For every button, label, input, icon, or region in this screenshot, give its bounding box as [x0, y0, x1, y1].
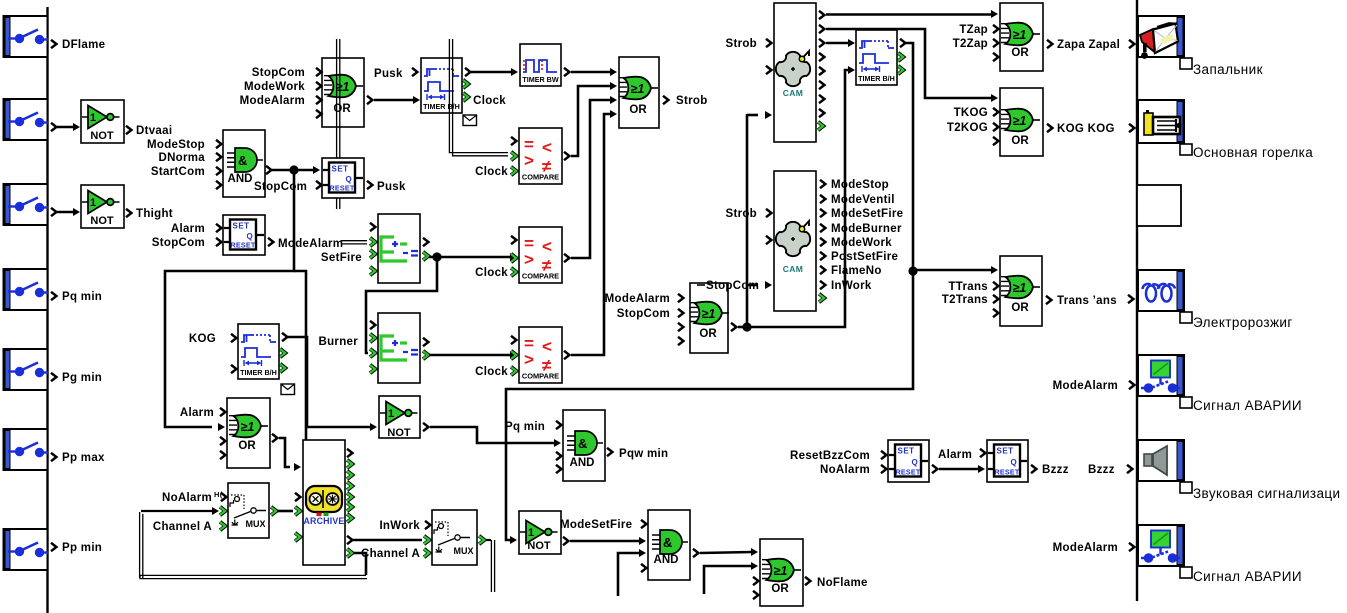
svg-text:ModeSetFire: ModeSetFire [831, 208, 903, 220]
svg-text:1: 1 [388, 408, 394, 420]
wire CNT1 loop to CNT2 [366, 261, 437, 353]
svg-text:TIMER BW: TIMER BW [522, 75, 559, 84]
svg-text:NOT: NOT [527, 540, 551, 552]
wire ARCHIVE to MUX2 [353, 539, 422, 542]
svg-text:1: 1 [528, 527, 534, 539]
input contact to NOT U2 [4, 184, 48, 225]
output device alarm signal 2 [1138, 525, 1184, 566]
inverter NOT3 [379, 396, 420, 438]
svg-text:Q: Q [1010, 458, 1017, 467]
node KOG KOG output [1047, 124, 1052, 132]
svg-text:OR: OR [629, 104, 647, 116]
svg-text:Сигнал АВАРИИ: Сигнал АВАРИИ [1193, 398, 1302, 413]
multiplexer MUX2 [432, 510, 477, 565]
wire Channel A loop to MUX1 [353, 553, 366, 575]
svg-text:ModeSetFire: ModeSetFire [560, 519, 632, 531]
wire T3 to NOT3 [288, 337, 370, 427]
inverter NOT U1 [81, 100, 124, 143]
spare empty box [1137, 185, 1181, 226]
wire CAM1 out1 to OR6 [826, 13, 992, 16]
or-gate OR5 [690, 283, 728, 353]
svg-text:AND: AND [654, 554, 679, 566]
svg-text:≥1: ≥1 [241, 420, 255, 434]
svg-text:Pqw min: Pqw min [619, 448, 668, 460]
wire [57, 126, 74, 129]
svg-text:T2KOG: T2KOG [947, 122, 988, 134]
svg-text:NoAlarm: NoAlarm [820, 464, 870, 476]
svg-text:OR: OR [771, 583, 789, 595]
left input rail [46, 7, 48, 613]
wire StopCom to CAM2 [747, 284, 758, 287]
node Strob output [663, 96, 668, 104]
svg-text:ModeWork: ModeWork [244, 81, 305, 93]
pins CNT2 right [423, 338, 428, 346]
wire COMPARE2 to OR2 [564, 254, 569, 262]
or-gate OR6 Zap [1000, 3, 1043, 71]
svg-text:SET: SET [233, 222, 250, 231]
svg-text:ModeAlarm: ModeAlarm [1053, 380, 1118, 392]
timer TIMER B/H T3 KOG [238, 324, 279, 379]
archive block ARCHIVE [303, 440, 345, 565]
inverter NOT U2 [81, 185, 124, 228]
svg-text:Clock: Clock [475, 166, 508, 178]
svg-text:≥1: ≥1 [336, 80, 350, 94]
svg-text:ModeVentil: ModeVentil [831, 194, 895, 206]
node Thight [126, 209, 131, 217]
counter CNT2 [378, 313, 420, 383]
or-gate OR3 [227, 398, 270, 468]
wire TBW to OR2 [571, 71, 611, 74]
pins CAM1 outputs [819, 11, 824, 19]
wire SR3 to SR4 [932, 465, 937, 473]
pins OR3 [220, 437, 225, 445]
pins AND3 [556, 421, 561, 429]
svg-text:COMPARE: COMPARE [522, 372, 559, 381]
junction StopCom net [742, 322, 751, 331]
svg-text:Channel A: Channel A [361, 548, 420, 560]
wire StopCom to TIMER4 [747, 70, 849, 327]
envelope T3 [281, 384, 295, 395]
node ModeAlarm output [268, 238, 273, 246]
svg-text:OR: OR [238, 440, 256, 452]
wire MUX2 out down [479, 536, 484, 544]
wire OR5 out to junction [731, 323, 736, 331]
svg-text:KOG: KOG [189, 333, 216, 345]
pins SR4 [980, 449, 985, 457]
pin CAM1 input2 [766, 66, 771, 74]
output device electro ignition [1138, 270, 1184, 311]
svg-text:COMPARE: COMPARE [522, 272, 559, 281]
sr-latch SR1 [322, 158, 364, 198]
svg-text:ModeAlarm: ModeAlarm [240, 95, 305, 107]
svg-text:Clock: Clock [475, 366, 508, 378]
or-gate OR4 [760, 539, 803, 606]
svg-text:NoFlame: NoFlame [817, 577, 868, 589]
svg-text:FlameNo: FlameNo [831, 265, 882, 277]
svg-text:Сигнал АВАРИИ: Сигнал АВАРИИ [1193, 569, 1302, 584]
wire [57, 211, 74, 214]
timer TIMER BW T2 [520, 44, 561, 86]
pin CAM2 input2 [766, 236, 771, 244]
svg-text:ModeStop: ModeStop [147, 139, 205, 151]
svg-text:TIMER B/H: TIMER B/H [423, 102, 460, 111]
output device alarm signal 1 [1138, 355, 1184, 396]
input contact Pq min [4, 269, 48, 310]
svg-text:Bzzz: Bzzz [1042, 464, 1069, 476]
svg-text:PostSetFire: PostSetFire [831, 251, 898, 263]
input contact Pg min [4, 349, 48, 390]
svg-text:Strob: Strob [725, 208, 757, 220]
or-gate OR2 Strob [619, 57, 659, 128]
node StopCom label top [697, 284, 705, 286]
svg-text:RESET: RESET [330, 184, 355, 193]
svg-text:ModeAlarm: ModeAlarm [278, 238, 343, 250]
svg-text:≥1: ≥1 [1013, 281, 1027, 295]
svg-text:NoAlarm: NoAlarm [162, 492, 212, 504]
pins SR1 [316, 181, 321, 189]
cam block CAM1 [774, 3, 816, 142]
svg-text:StopCom: StopCom [152, 237, 205, 249]
output device sound alarm [1138, 440, 1184, 481]
svg-text:MUX: MUX [246, 519, 266, 529]
junction StopCom [289, 165, 298, 174]
svg-text:KOG KOG: KOG KOG [1057, 123, 1115, 135]
svg-text:<: < [542, 237, 552, 256]
svg-text:<: < [542, 337, 552, 356]
pins CNT2 left [370, 321, 375, 329]
svg-text:StopCom: StopCom [617, 308, 670, 320]
svg-text:ModeWork: ModeWork [831, 237, 892, 249]
svg-text:ModeStop: ModeStop [831, 179, 889, 191]
wire AND1 to SR1 with StopCom node [266, 166, 271, 174]
cam block CAM2 [774, 171, 816, 311]
wire CNT2 to COMPARE3 [429, 354, 511, 357]
svg-text:MUX: MUX [454, 546, 474, 556]
wire NOT4 to AND2 [570, 540, 640, 543]
svg-text:NOT: NOT [90, 215, 114, 227]
pins COMPARE3 [511, 336, 516, 344]
wire StopCom net vertical [746, 114, 749, 327]
svg-text:StopCom: StopCom [252, 67, 305, 79]
svg-text:≥1: ≥1 [1013, 28, 1027, 42]
node Pqw min output [607, 448, 612, 456]
svg-text:OR: OR [1011, 302, 1029, 314]
svg-text:RESET: RESET [231, 241, 256, 250]
svg-text:Электророзжиг: Электророзжиг [1193, 315, 1293, 330]
comparator COMPARE3 [519, 327, 562, 383]
wire MUX1 to ARCHIVE [271, 507, 276, 515]
wire to OR8 [913, 269, 992, 272]
svg-text:&: & [578, 436, 587, 451]
pins MUX2 [424, 536, 429, 544]
pin OR1 input 4 [316, 110, 321, 118]
svg-text:TZap: TZap [959, 24, 988, 36]
pins CAM2 outputs [820, 180, 825, 188]
pin ARCHIVE out Channel A [347, 549, 352, 557]
multiplexer MUX1 [228, 483, 269, 538]
wire StopCom to CAM1 [747, 114, 758, 117]
svg-text:Channel A: Channel A [153, 521, 212, 533]
svg-text:SET: SET [332, 165, 349, 174]
svg-text:Pp max: Pp max [62, 452, 105, 464]
wire OR1 to TIMER1 [367, 96, 372, 104]
svg-text:≥1: ≥1 [702, 307, 716, 321]
svg-text:OR: OR [699, 328, 717, 340]
svg-text:Bzzz: Bzzz [1088, 464, 1115, 476]
svg-text:Zapa Zapal: Zapa Zapal [1057, 39, 1120, 51]
wire COMPARE1 to OR2 [564, 152, 569, 160]
output device main burner [1138, 100, 1184, 143]
wire NOT3 to AND3 [423, 423, 428, 431]
svg-text:Trans ʼans: Trans ʼans [1057, 295, 1117, 307]
svg-text:COMPARE: COMPARE [522, 173, 559, 182]
svg-text:StopCom: StopCom [254, 181, 307, 193]
svg-text:Pq min: Pq min [505, 421, 545, 433]
svg-text:>: > [524, 350, 534, 369]
pins OR5 [678, 323, 683, 331]
svg-text:ResetBzzCom: ResetBzzCom [790, 450, 870, 462]
pin AND1 input4 [216, 181, 221, 189]
svg-text:Thight: Thight [136, 208, 173, 220]
sr-latch SR3 [888, 440, 929, 482]
wire ModeAlarm double to CNT1 [341, 240, 367, 242]
svg-text:Pusk: Pusk [374, 68, 403, 80]
svg-text:NOT: NOT [90, 130, 114, 142]
svg-text:OR: OR [1011, 135, 1029, 147]
svg-text:Strob: Strob [676, 95, 708, 107]
svg-text:TTrans: TTrans [948, 281, 988, 293]
svg-text:OR: OR [1011, 47, 1029, 59]
pin T3 input2 [231, 365, 236, 373]
wire CNT1 to COMPARE2 [429, 256, 511, 259]
and-gate AND2 [648, 510, 690, 580]
svg-text:InWork: InWork [831, 280, 872, 292]
pins OR4 [753, 577, 758, 585]
svg-text:<: < [542, 138, 552, 157]
timer TIMER B/H T4 [856, 30, 897, 85]
node Pusk output [367, 181, 372, 189]
timer TIMER B/H T1 [421, 58, 462, 113]
sr-latch SR2 [223, 215, 265, 255]
svg-text:ARCHIVE: ARCHIVE [304, 516, 345, 526]
wire COMPARE3 to OR2 [564, 351, 569, 359]
pin ARCHIVE out InWork [347, 536, 352, 544]
pins OR8 [993, 282, 998, 290]
svg-text:Основная горелка: Основная горелка [1193, 145, 1313, 160]
svg-text:≥1: ≥1 [1013, 114, 1027, 128]
svg-text:StartCom: StartCom [151, 166, 205, 178]
svg-text:Pq min: Pq min [62, 291, 102, 303]
input contact DFlame [4, 16, 48, 57]
or-gate OR8 Trans [1000, 256, 1042, 326]
pins AND2 [641, 520, 646, 528]
svg-text:TIMER B/H: TIMER B/H [858, 74, 895, 83]
svg-text:DNorma: DNorma [158, 152, 205, 164]
svg-text:RESET: RESET [995, 468, 1020, 477]
junction CNT1 out [432, 252, 441, 261]
pins ARCHIVE left [295, 493, 300, 501]
wire StopCom to ARCHIVE top [294, 271, 306, 440]
svg-text:RESET: RESET [896, 468, 921, 477]
envelope T1 [463, 115, 477, 126]
counter CNT1 [378, 214, 420, 283]
pins OR6 [993, 25, 998, 33]
svg-text:ModeBurner: ModeBurner [831, 223, 902, 235]
wire from below into OR4 [704, 566, 752, 594]
pins OR7 [993, 108, 998, 116]
wire CAM1 out2 to OR7 [826, 29, 992, 98]
svg-text:CAM: CAM [783, 264, 804, 274]
svg-text:SET: SET [997, 447, 1014, 456]
pins COMPARE2 [511, 236, 516, 244]
sr-latch SR4 [987, 440, 1028, 482]
svg-text:SET: SET [898, 447, 915, 456]
wire AND2 to OR4 [693, 549, 698, 557]
and-gate AND1 [223, 130, 265, 197]
or-gate OR1 [322, 58, 364, 127]
pins CNT1 right [423, 238, 428, 246]
node Trans output [1046, 296, 1051, 304]
svg-text:Pusk: Pusk [377, 181, 406, 193]
svg-text:SetFire: SetFire [321, 252, 362, 264]
pin T1 outputs [465, 68, 470, 76]
wire long net into NOT4 [510, 536, 517, 544]
pins CNT1 left [370, 223, 375, 231]
svg-text:Звуковая сигнализаци: Звуковая сигнализаци [1193, 486, 1341, 501]
svg-text:Запальник: Запальник [1193, 62, 1263, 77]
node NoFlame output [805, 577, 810, 585]
svg-text:TKOG: TKOG [954, 107, 988, 119]
node Bzzz output [1031, 465, 1036, 473]
svg-text:DFlame: DFlame [62, 39, 105, 51]
svg-text:&: & [663, 535, 672, 550]
inverter NOT4 [519, 511, 561, 554]
svg-text:1: 1 [90, 112, 96, 124]
svg-text:Dtvaai: Dtvaai [136, 125, 172, 137]
wire StopCom down-left loop to OR3 [165, 174, 294, 427]
output device Zapalnik [1138, 16, 1184, 57]
svg-text:1: 1 [90, 197, 96, 209]
svg-text:>: > [524, 151, 534, 170]
or-gate OR7 KOG [1000, 88, 1043, 156]
right output rail [1136, 0, 1138, 601]
pins MUX1 data [220, 507, 225, 515]
wire T1 to TIMER BW [471, 71, 512, 74]
comparator COMPARE1 [519, 128, 562, 184]
svg-text:Alarm: Alarm [938, 449, 972, 461]
svg-text:Alarm: Alarm [180, 407, 214, 419]
input contact Pp min [4, 529, 48, 570]
svg-text:TIMER B/H: TIMER B/H [240, 368, 277, 377]
pins T3 outputs [282, 333, 287, 341]
svg-text:Q: Q [911, 458, 918, 467]
wire pair through TIMER1 to COMPARE1 [449, 39, 508, 153]
and-gate AND3 [563, 410, 605, 481]
svg-text:CAM: CAM [783, 88, 804, 98]
wire T4 long net [506, 43, 913, 540]
svg-text:≥1: ≥1 [774, 564, 788, 578]
svg-text:T2Zap: T2Zap [953, 38, 988, 50]
svg-text:Alarm: Alarm [171, 223, 205, 235]
pins COMPARE1 [511, 137, 516, 145]
svg-text:InWork: InWork [379, 520, 420, 532]
wire from below into AND2 [618, 553, 640, 596]
svg-text:Pg min: Pg min [62, 372, 102, 384]
svg-text:AND: AND [228, 173, 253, 185]
node Zapa Zapal output [1047, 40, 1052, 48]
pins T4 outputs [900, 39, 905, 47]
pins ARCHIVE right [347, 449, 352, 457]
svg-text:Clock: Clock [475, 267, 508, 279]
svg-text:NOT: NOT [387, 427, 411, 439]
svg-text:ModeAlarm: ModeAlarm [605, 293, 670, 305]
svg-text:Burner: Burner [318, 336, 358, 348]
junction T4 net [908, 266, 917, 275]
svg-text:Clock: Clock [473, 95, 506, 107]
svg-text:&: & [238, 153, 247, 168]
svg-text:>: > [524, 250, 534, 269]
svg-text:AND: AND [570, 457, 595, 469]
comparator COMPARE2 [519, 227, 562, 283]
wire pair through OR1 [336, 39, 338, 209]
input contact Pp max [4, 429, 48, 470]
input contact to NOT U1 [4, 99, 48, 140]
svg-text:Strob: Strob [725, 38, 757, 50]
svg-text:Pp min: Pp min [62, 542, 102, 554]
wire OR3 to ARCHIVE [272, 434, 277, 442]
svg-text:T2Trans: T2Trans [942, 294, 988, 306]
node Dtvaai [126, 126, 131, 134]
svg-text:≥1: ≥1 [631, 82, 645, 96]
wire CAM1 out3 to TIMER4 [826, 42, 849, 45]
node ModeSetFire label [563, 537, 568, 545]
svg-text:ModeAlarm: ModeAlarm [1053, 542, 1118, 554]
